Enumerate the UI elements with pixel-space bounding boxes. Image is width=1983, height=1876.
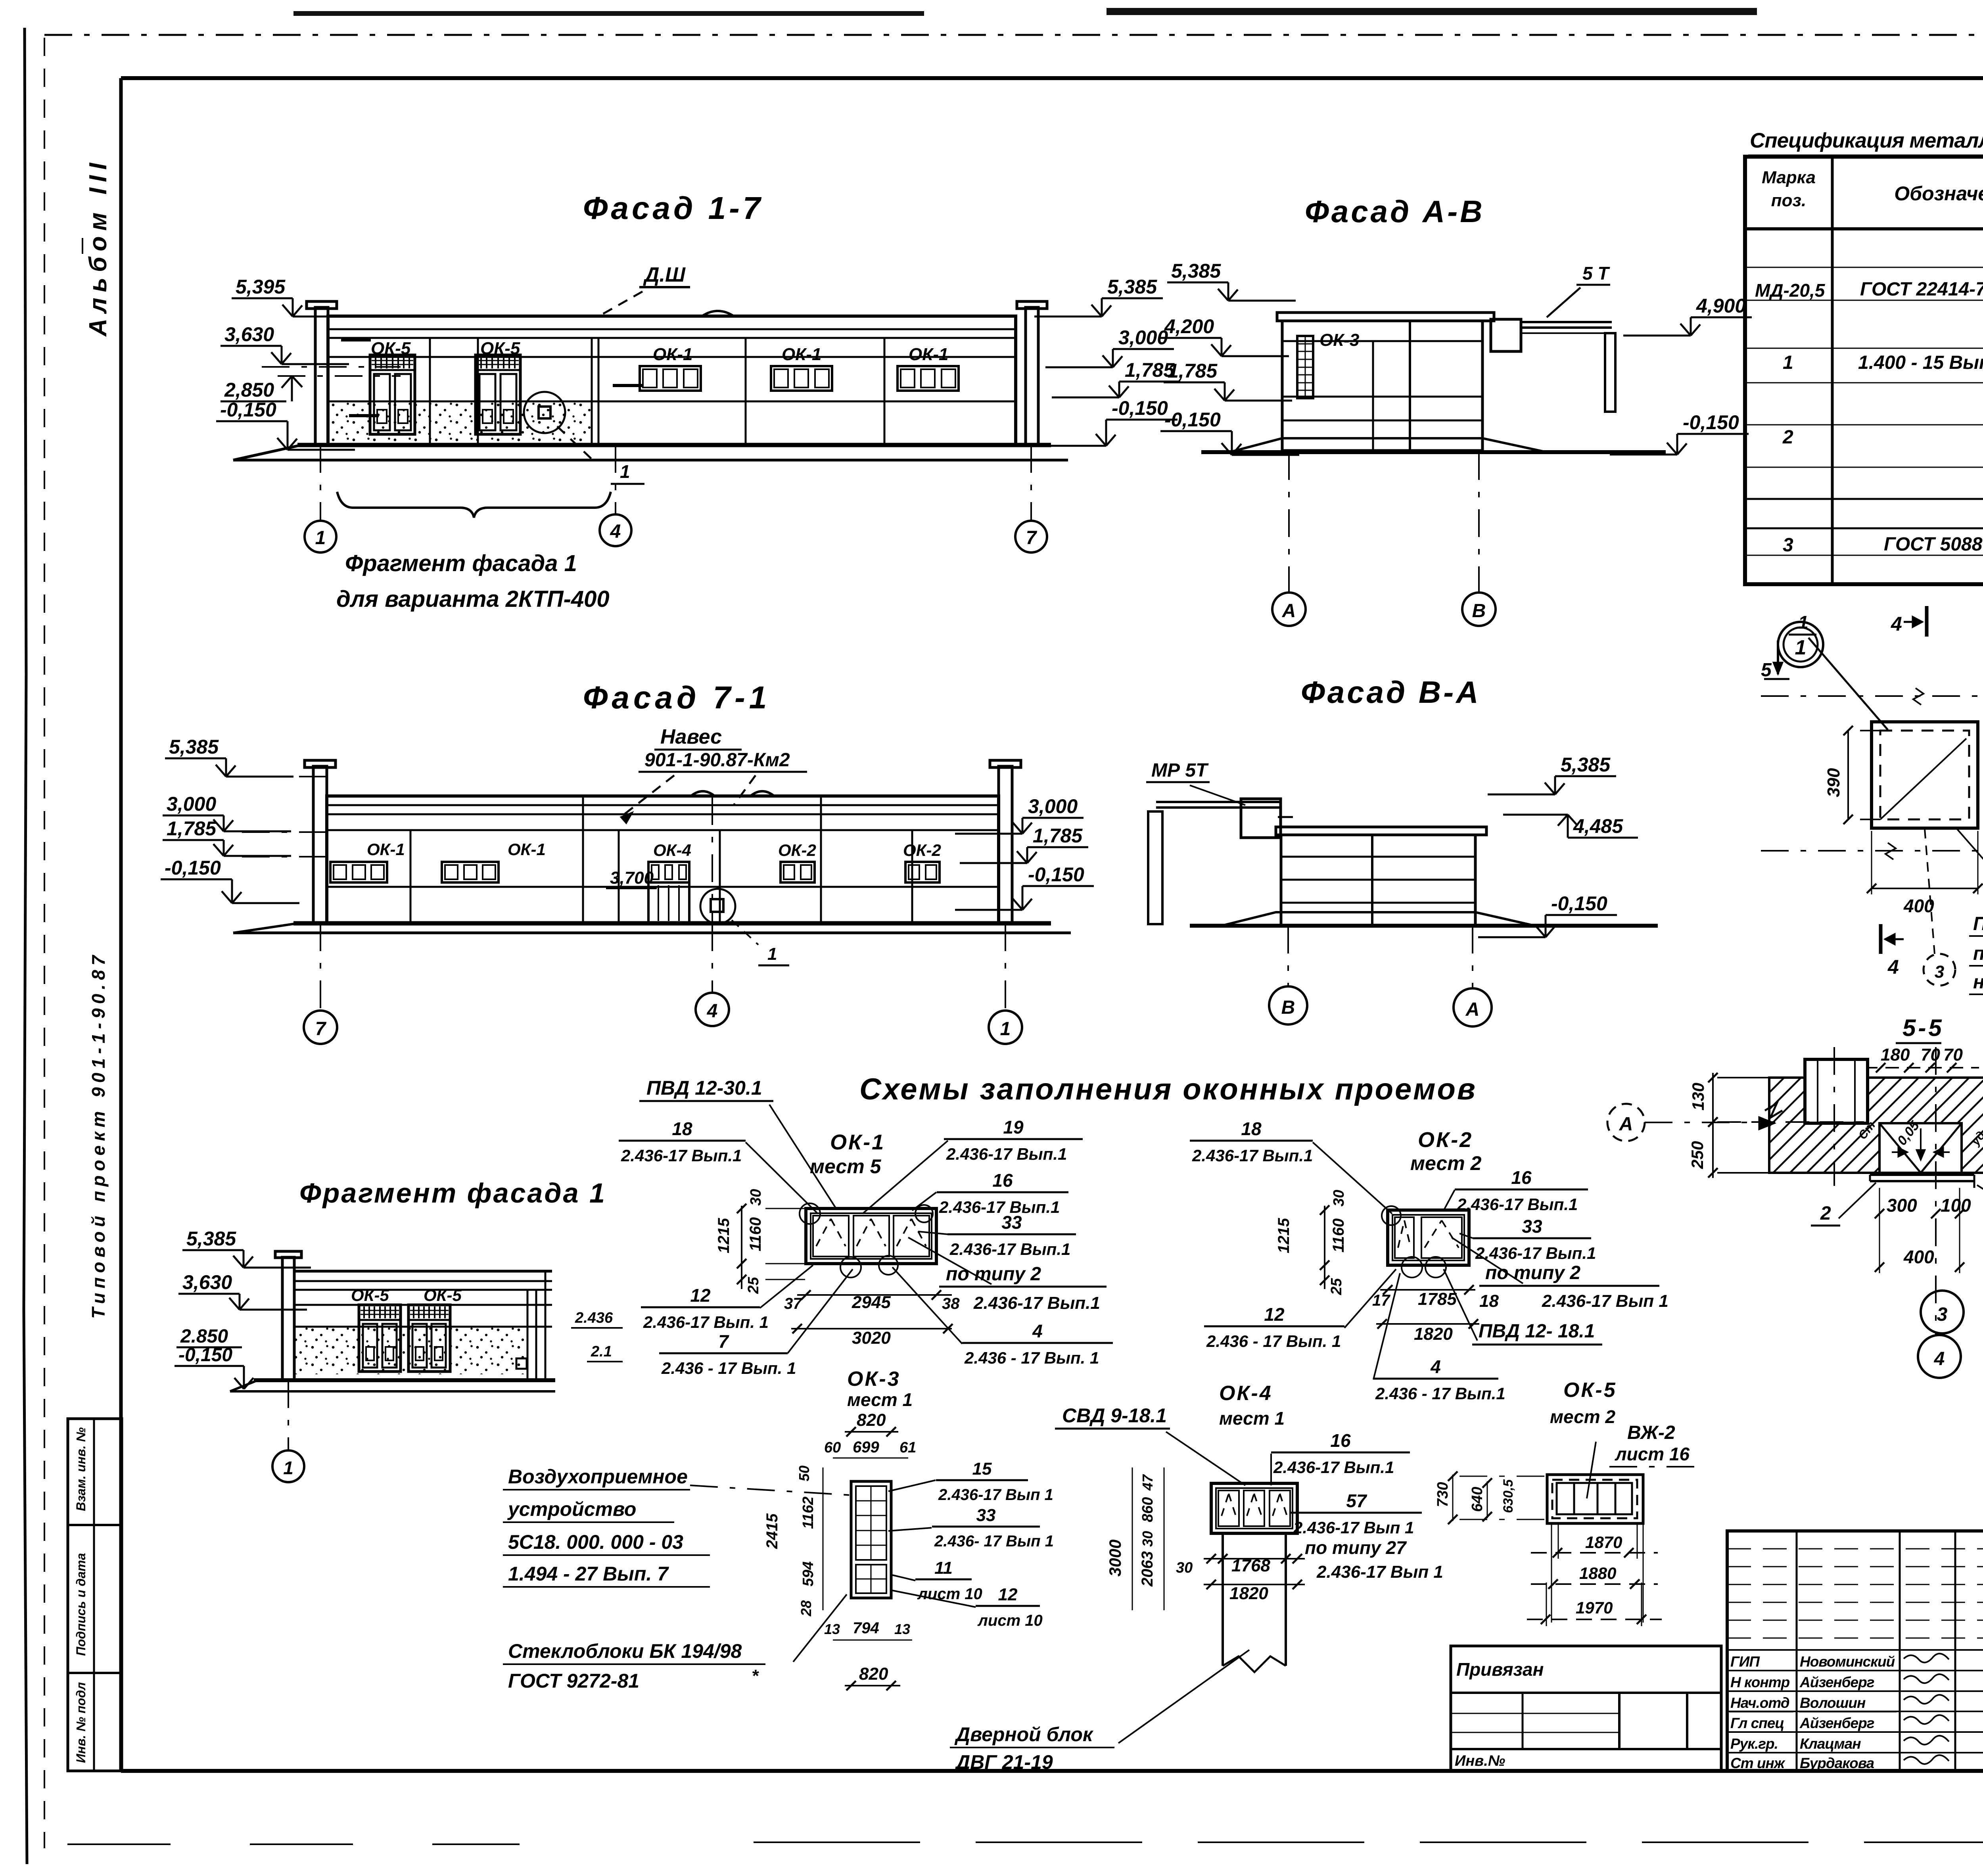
svg-text:Фасад 1-7: Фасад 1-7	[583, 190, 763, 226]
fragment facade speckle band	[295, 1327, 525, 1374]
svg-text:4: 4	[1032, 1321, 1043, 1341]
svg-text:13: 13	[894, 1621, 910, 1637]
svg-text:-0,150: -0,150	[1683, 411, 1739, 434]
svg-text:лист 10: лист 10	[917, 1585, 982, 1603]
niche plan centerlines	[1761, 695, 1983, 697]
svg-text:3: 3	[1935, 962, 1944, 982]
svg-text:ДВГ 21-19: ДВГ 21-19	[954, 1751, 1053, 1773]
axis bubble 4 (facade 7-1)	[696, 993, 729, 1026]
svg-text:ВЖ-2: ВЖ-2	[1627, 1422, 1675, 1443]
svg-text:57: 57	[1346, 1490, 1367, 1511]
svg-text:2.436 - 17 Вып. 1: 2.436 - 17 Вып. 1	[964, 1348, 1099, 1367]
svg-text:12: 12	[998, 1585, 1018, 1604]
svg-text:130: 130	[1689, 1083, 1707, 1111]
facade 7-1 panel joints	[410, 830, 412, 923]
svg-text:2945: 2945	[852, 1293, 891, 1312]
niche plan dim 390	[1847, 731, 1849, 819]
svg-text:7: 7	[315, 1019, 327, 1040]
svg-text:730: 730	[1435, 1482, 1451, 1507]
svg-text:13: 13	[824, 1621, 840, 1637]
svg-text:Схемы заполнения оконных пр: Схемы заполнения оконных проемов	[859, 1072, 1477, 1106]
main drawing frame	[121, 76, 1983, 80]
facade 7-1 building outline	[313, 766, 327, 923]
svg-text:820: 820	[859, 1664, 888, 1684]
svg-text:лист 16: лист 16	[1615, 1444, 1690, 1464]
svg-text:11: 11	[934, 1558, 953, 1578]
svg-text:1820: 1820	[1414, 1324, 1453, 1344]
svg-text:12: 12	[1264, 1304, 1285, 1325]
svg-text:2.436-17 Вып 1: 2.436-17 Вып 1	[1316, 1562, 1443, 1582]
svg-text:2.436-17 Вып.1: 2.436-17 Вып.1	[939, 1198, 1060, 1216]
svg-text:1: 1	[315, 528, 326, 549]
svg-text:Привязан: Привязан	[1456, 1659, 1544, 1680]
svg-text:1.400 - 15 Вып 1: 1.400 - 15 Вып 1	[1858, 352, 1983, 373]
scheme OK-2 vertical dims	[1324, 1206, 1325, 1289]
svg-text:Фасад В-А: Фасад В-А	[1301, 675, 1481, 710]
svg-text:2.1: 2.1	[591, 1343, 612, 1360]
svg-text:3000: 3000	[1106, 1540, 1124, 1577]
svg-text:2.436-17 Вып.1: 2.436-17 Вып.1	[621, 1146, 742, 1165]
svg-text:60: 60	[824, 1439, 841, 1456]
svg-text:ОК-5: ОК-5	[371, 339, 411, 358]
svg-text:Клацман: Клацман	[1800, 1736, 1861, 1752]
svg-text:1: 1	[1798, 612, 1808, 633]
svg-text:1: 1	[1795, 636, 1807, 659]
svg-text:*: *	[752, 1666, 759, 1686]
bottom dashed border	[67, 1843, 520, 1845]
section 5-5 bottom plate	[1870, 1174, 1974, 1176]
svg-text:70: 70	[1943, 1045, 1963, 1065]
svg-text:2415: 2415	[763, 1513, 781, 1549]
svg-text:33: 33	[1001, 1212, 1022, 1233]
svg-text:Новоминский: Новоминский	[1800, 1653, 1895, 1670]
svg-text:для варианта 2КТП-400: для варианта 2КТП-400	[336, 586, 610, 612]
svg-text:2.436- 17 Вып 1: 2.436- 17 Вып 1	[934, 1533, 1054, 1550]
svg-text:ГИП: ГИП	[1730, 1653, 1760, 1670]
svg-text:1820: 1820	[1229, 1584, 1268, 1603]
svg-text:Типовой проект 901-1-90.87: Типовой проект 901-1-90.87	[88, 951, 109, 1319]
svg-text:5,385: 5,385	[169, 736, 219, 758]
facade 1-7 windows OK-1	[640, 366, 701, 391]
facade 1-7 roof vent bump	[702, 311, 734, 316]
svg-text:2.436 - 17 Вып.1: 2.436 - 17 Вып.1	[1375, 1384, 1505, 1403]
facade A-B axes and bubbles	[1288, 452, 1290, 593]
svg-text:ОК-5: ОК-5	[1563, 1379, 1617, 1402]
svg-text:ГОСТ 22414-77: ГОСТ 22414-77	[1860, 279, 1983, 300]
svg-text:47: 47	[1139, 1474, 1156, 1491]
svg-text:Просмоленная: Просмоленная	[1973, 913, 1983, 934]
svg-text:-0,150: -0,150	[165, 857, 221, 879]
svg-text:15: 15	[972, 1459, 992, 1479]
svg-text:1: 1	[283, 1458, 293, 1478]
svg-text:1785: 1785	[1418, 1289, 1457, 1309]
svg-text:Навес: Навес	[660, 725, 722, 748]
svg-text:мест 2: мест 2	[1550, 1406, 1615, 1427]
svg-text:ОК-1: ОК-1	[830, 1130, 885, 1154]
svg-text:Обозначение: Обозначение	[1894, 182, 1983, 205]
svg-text:1160: 1160	[747, 1217, 764, 1251]
svg-text:А: А	[1282, 600, 1296, 621]
svg-text:ПВД 12- 18.1: ПВД 12- 18.1	[1479, 1321, 1595, 1342]
svg-text:5,385: 5,385	[1171, 260, 1221, 282]
svg-text:2.436-17 Вып.1: 2.436-17 Вып.1	[1475, 1244, 1596, 1262]
svg-text:МР 5Т: МР 5Т	[1151, 760, 1209, 781]
scheme OK-1 vertical dims	[741, 1206, 742, 1289]
svg-text:Альбом III: Альбом III	[84, 157, 112, 337]
niche plan section marker 4 top	[1925, 606, 1929, 637]
svg-text:пакля на цемент-: пакля на цемент-	[1973, 943, 1983, 964]
svg-text:2.436-17 Вып 1: 2.436-17 Вып 1	[1542, 1291, 1668, 1311]
facade 1-7 window OK-5 no.2	[476, 355, 520, 434]
svg-text:794: 794	[853, 1619, 879, 1637]
svg-text:ОК-4: ОК-4	[653, 841, 691, 859]
scheme OK-4 wall stem	[1222, 1533, 1224, 1666]
svg-text:Фрагмент фасада 1: Фрагмент фасада 1	[345, 551, 577, 576]
svg-text:В: В	[1281, 997, 1295, 1018]
svg-text:5,385: 5,385	[1107, 276, 1157, 298]
svg-text:1,785: 1,785	[1168, 360, 1218, 382]
svg-text:3,000: 3,000	[1028, 795, 1078, 817]
svg-text:ПВД 12-30.1: ПВД 12-30.1	[646, 1077, 762, 1099]
svg-text:5-5: 5-5	[1902, 1015, 1944, 1041]
svg-text:ОК-2: ОК-2	[903, 841, 941, 859]
svg-text:Инв. № подл: Инв. № подл	[74, 1682, 88, 1763]
svg-text:4: 4	[1430, 1356, 1441, 1377]
svg-text:Инв.№: Инв.№	[1455, 1753, 1505, 1769]
svg-text:1160: 1160	[1330, 1218, 1347, 1253]
svg-text:1: 1	[1000, 1019, 1011, 1040]
facade B-A left annex	[1148, 811, 1162, 924]
niche plan square	[1872, 722, 1978, 828]
svg-text:-0,150: -0,150	[1551, 892, 1607, 915]
scheme OK-1 horizontal dims	[797, 1294, 952, 1296]
svg-text:100: 100	[1941, 1195, 1971, 1216]
svg-text:70: 70	[1921, 1045, 1940, 1065]
svg-text:ном растворе: ном растворе	[1973, 972, 1983, 993]
svg-text:4: 4	[1934, 1348, 1945, 1370]
svg-text:ОК-4: ОК-4	[1219, 1382, 1273, 1405]
svg-text:250: 250	[1688, 1141, 1707, 1169]
facade 7-1 vent callout	[700, 889, 735, 924]
svg-text:820: 820	[857, 1410, 886, 1430]
svg-text:28: 28	[798, 1600, 814, 1617]
svg-text:30: 30	[1139, 1531, 1156, 1547]
facade 1-7 fragment brace	[337, 492, 611, 518]
svg-text:ОК-1: ОК-1	[508, 840, 546, 859]
svg-text:180: 180	[1881, 1045, 1910, 1065]
svg-text:2.436-17 Вып.1: 2.436-17 Вып.1	[1192, 1146, 1313, 1165]
axis bubble 7 (facade 7-1)	[304, 1011, 337, 1044]
svg-text:ОК-5: ОК-5	[351, 1286, 389, 1304]
svg-text:Воздухоприемное: Воздухоприемное	[508, 1466, 688, 1488]
svg-text:2063: 2063	[1139, 1551, 1156, 1587]
svg-text:594: 594	[800, 1561, 817, 1586]
svg-text:2.436-17 Вып.1: 2.436-17 Вып.1	[973, 1293, 1100, 1313]
svg-text:Взам. инв. №: Взам. инв. №	[74, 1427, 88, 1511]
scheme OK-2 window	[1388, 1210, 1469, 1265]
svg-text:25: 25	[1328, 1278, 1345, 1295]
svg-text:5,385: 5,385	[1561, 754, 1611, 776]
facade A-B window OK-3	[1297, 336, 1313, 398]
axis bubble B (facade B-A)	[1269, 986, 1307, 1024]
svg-text:1: 1	[620, 461, 630, 482]
scheme OK-3 window glass blocks	[851, 1481, 891, 1598]
svg-text:Бурдакова: Бурдакова	[1800, 1755, 1874, 1771]
svg-text:поз.: поз.	[1771, 191, 1806, 210]
axis bubble A	[1272, 593, 1306, 626]
svg-text:699: 699	[853, 1439, 879, 1456]
facade B-A building	[1276, 827, 1486, 835]
svg-text:18: 18	[1241, 1118, 1262, 1139]
svg-text:Марка: Марка	[1762, 168, 1816, 187]
svg-text:ОК-5: ОК-5	[424, 1286, 462, 1304]
facade 1-7 building outline	[315, 307, 328, 445]
svg-text:ОК-1: ОК-1	[909, 345, 948, 364]
svg-text:640: 640	[1469, 1487, 1486, 1512]
svg-text:ОК-3: ОК-3	[1319, 330, 1359, 350]
svg-text:33: 33	[976, 1506, 996, 1525]
svg-text:61: 61	[899, 1439, 916, 1456]
fragment facade ground	[254, 1378, 555, 1382]
facade 1-7 band lines	[328, 356, 1016, 358]
facade B-A ground	[1190, 924, 1658, 928]
svg-text:ГОСТ 9272-81: ГОСТ 9272-81	[508, 1670, 639, 1692]
svg-text:ОК-1: ОК-1	[367, 840, 405, 859]
svg-text:2.436-17 Вып 1: 2.436-17 Вып 1	[1293, 1518, 1414, 1537]
facade B-A axes and bubbles	[1287, 926, 1289, 986]
facade A-B canopy and bracket	[1491, 319, 1521, 351]
svg-text:1,785: 1,785	[167, 817, 217, 840]
axis bubble 7	[1015, 521, 1047, 552]
svg-text:300: 300	[1887, 1195, 1917, 1216]
svg-text:4: 4	[1891, 613, 1902, 635]
svg-text:3020: 3020	[852, 1328, 891, 1348]
svg-text:3,630: 3,630	[182, 1271, 232, 1293]
axis bubble B	[1462, 593, 1496, 626]
svg-text:Рук.гр.: Рук.гр.	[1730, 1736, 1778, 1752]
facade 7-1 windows OK-1	[330, 862, 387, 882]
title block signature table	[1727, 1531, 1983, 1771]
top edge scan smudge right	[1107, 8, 1757, 15]
svg-text:Фасад А-В: Фасад А-В	[1305, 194, 1485, 229]
svg-text:5: 5	[1761, 660, 1772, 681]
svg-text:ОК-5: ОК-5	[480, 339, 520, 358]
svg-text:СВД 9-18.1: СВД 9-18.1	[1062, 1404, 1167, 1427]
svg-text:18: 18	[672, 1118, 692, 1139]
svg-text:1: 1	[1783, 352, 1793, 373]
svg-text:50: 50	[796, 1466, 812, 1481]
facade 7-1 axis 4 line through building	[712, 797, 713, 923]
svg-text:лист 10: лист 10	[977, 1612, 1043, 1629]
niche plan section marker 4 bottom	[1879, 924, 1883, 954]
facade 7-1 ground	[293, 921, 1051, 926]
svg-text:Нач.отд: Нач.отд	[1730, 1695, 1789, 1711]
svg-text:860: 860	[1139, 1497, 1156, 1522]
svg-text:Спецификация металлических шка: Спецификация металлических шкафов,стальн…	[1750, 129, 1983, 152]
facade 7-1 window OK-4 and door	[648, 862, 689, 882]
svg-text:ОК-3: ОК-3	[847, 1368, 901, 1391]
left dashed margin line	[44, 38, 45, 1848]
svg-text:16: 16	[1330, 1430, 1351, 1451]
svg-text:ОК-1: ОК-1	[782, 345, 821, 364]
svg-text:Дверной блок: Дверной блок	[954, 1723, 1094, 1746]
svg-text:901-1-90.87-Км2: 901-1-90.87-Км2	[644, 750, 790, 771]
svg-text:18: 18	[1479, 1291, 1499, 1311]
axis bubble 1 (facade 7-1)	[989, 1011, 1022, 1044]
svg-text:мест 5: мест 5	[810, 1155, 882, 1178]
svg-text:2.850: 2.850	[180, 1326, 228, 1347]
svg-text:-0,150: -0,150	[1112, 397, 1168, 419]
section 5-5 circles 3 and 4	[1921, 1291, 1964, 1333]
svg-text:5 Т: 5 Т	[1582, 263, 1610, 284]
facade 7-1 roof bumps	[691, 791, 715, 796]
svg-text:5,385: 5,385	[186, 1228, 236, 1250]
svg-text:А: А	[1465, 999, 1480, 1020]
section 5-5 hatched wall band	[1769, 1078, 1983, 1173]
svg-text:2.436: 2.436	[575, 1310, 613, 1326]
svg-text:3: 3	[1783, 535, 1793, 556]
facade 7-1 axes and bubbles	[320, 923, 321, 1011]
niche plan circle 3	[1924, 954, 1955, 986]
fragment facade windows OK-5	[359, 1305, 401, 1372]
svg-text:мест 1: мест 1	[1219, 1408, 1285, 1429]
svg-text:16: 16	[992, 1170, 1013, 1191]
section 5-5 dims 300 100 400	[1879, 1188, 1880, 1273]
svg-text:17: 17	[1372, 1292, 1390, 1309]
facade 1-7 speckle band	[329, 401, 591, 444]
top dash-dot border	[44, 34, 1983, 36]
svg-text:1970: 1970	[1576, 1598, 1613, 1617]
scheme OK-5 dims	[1551, 1523, 1552, 1623]
svg-text:37: 37	[784, 1295, 802, 1312]
svg-text:Стеклоблоки БК 194/98: Стеклоблоки БК 194/98	[508, 1640, 742, 1662]
section 5-5 circle A callout	[1607, 1104, 1645, 1141]
svg-text:390: 390	[1824, 768, 1843, 797]
svg-text:по типу 2: по типу 2	[1485, 1262, 1580, 1283]
facade 1-7 panel joints	[430, 338, 430, 401]
svg-text:-0,150: -0,150	[1028, 863, 1084, 886]
facade 1-7 window OK-5 no.1	[370, 355, 415, 434]
svg-text:Волошин: Волошин	[1800, 1695, 1866, 1711]
specification table frame	[1745, 157, 1983, 584]
svg-text:1: 1	[767, 944, 777, 964]
title block privyazan box	[1451, 1646, 1721, 1771]
facade 1-7 small arrows	[341, 338, 371, 341]
svg-text:3,700: 3,700	[610, 868, 654, 888]
scheme OK-5 window	[1547, 1475, 1643, 1523]
svg-text:Айзенберг: Айзенберг	[1799, 1715, 1874, 1731]
svg-text:2.436-17 Вып.1: 2.436-17 Вып.1	[946, 1145, 1067, 1163]
svg-text:16: 16	[1511, 1167, 1532, 1188]
svg-text:Гл спец: Гл спец	[1730, 1715, 1784, 1731]
section 5-5 left dims 130 250	[1717, 1077, 1773, 1078]
axis bubble A (facade B-A)	[1454, 988, 1492, 1026]
facade 1-7 ground line	[297, 443, 1051, 447]
svg-text:мест 2: мест 2	[1410, 1152, 1482, 1174]
section 5-5 vent stub	[1805, 1059, 1868, 1123]
svg-text:2.436-17 Вып 1: 2.436-17 Вып 1	[938, 1486, 1053, 1504]
svg-text:2: 2	[1782, 427, 1793, 448]
svg-text:2.436-17 Вып.1: 2.436-17 Вып.1	[1457, 1195, 1578, 1214]
svg-text:по типу 27: по типу 27	[1305, 1537, 1407, 1558]
svg-text:А: А	[1619, 1114, 1633, 1135]
svg-text:Подпись и дата: Подпись и дата	[74, 1553, 88, 1656]
svg-text:1215: 1215	[715, 1218, 733, 1253]
svg-text:12: 12	[690, 1285, 711, 1306]
outer rough left border	[25, 28, 26, 674]
fragment facade axis bubble 1	[288, 1380, 289, 1450]
svg-text:2.436 - 17 Вып. 1: 2.436 - 17 Вып. 1	[1206, 1332, 1341, 1350]
svg-text:3,000: 3,000	[167, 793, 216, 815]
left stamp column	[68, 1419, 122, 1771]
svg-text:ГОСТ 5088-78: ГОСТ 5088-78	[1884, 534, 1983, 555]
svg-text:1870: 1870	[1585, 1533, 1622, 1552]
svg-text:2: 2	[1820, 1203, 1831, 1224]
scheme OK-4 window	[1211, 1483, 1297, 1533]
svg-text:38: 38	[942, 1295, 960, 1312]
svg-text:2.436 - 17 Вып. 1: 2.436 - 17 Вып. 1	[661, 1359, 796, 1377]
top edge scan smudge left	[293, 11, 924, 16]
svg-text:5,395: 5,395	[236, 276, 286, 298]
svg-text:30: 30	[1176, 1559, 1193, 1576]
axis bubble 1	[305, 521, 336, 552]
facade A-B building	[1277, 313, 1494, 321]
svg-text:400: 400	[1903, 1247, 1934, 1267]
svg-text:-0,150: -0,150	[220, 399, 276, 421]
svg-text:7: 7	[1026, 528, 1038, 549]
svg-text:4,900: 4,900	[1696, 295, 1746, 317]
svg-text:Айзенберг: Айзенберг	[1799, 1674, 1874, 1690]
fragment facade vent square	[516, 1358, 527, 1369]
section 5-5 break marks	[1765, 1103, 1782, 1118]
svg-text:33: 33	[1522, 1216, 1542, 1237]
svg-text:1,785: 1,785	[1033, 825, 1083, 847]
svg-text:МД-20,5: МД-20,5	[1755, 280, 1826, 301]
section 5-5 niche cavity with V	[1879, 1123, 1962, 1173]
svg-text:Д.Ш: Д.Ш	[643, 263, 686, 286]
facade 7-1 windows OK-2	[781, 862, 815, 882]
svg-text:В: В	[1472, 600, 1486, 621]
detail callout double circle 1	[1778, 622, 1823, 667]
svg-text:1880: 1880	[1579, 1564, 1616, 1583]
niche plan dim 400	[1872, 888, 1978, 889]
svg-text:-0,150: -0,150	[178, 1345, 232, 1366]
svg-text:4,200: 4,200	[1164, 315, 1214, 338]
svg-text:2.436-17 Вып. 1: 2.436-17 Вып. 1	[643, 1313, 769, 1331]
svg-text:1.494 - 27 Вып. 7: 1.494 - 27 Вып. 7	[508, 1563, 669, 1585]
svg-text:3,630: 3,630	[224, 323, 274, 345]
svg-text:Фасад 7-1: Фасад 7-1	[583, 680, 771, 715]
svg-text:Н контр: Н контр	[1730, 1674, 1790, 1690]
svg-text:4: 4	[707, 1001, 718, 1022]
svg-text:2.436-17 Вып.1: 2.436-17 Вып.1	[1273, 1458, 1394, 1477]
svg-text:мест 1: мест 1	[847, 1389, 913, 1410]
svg-text:1162: 1162	[800, 1496, 817, 1529]
svg-text:2,850: 2,850	[224, 379, 274, 401]
facade A-B ground	[1201, 450, 1666, 454]
svg-text:-0,150: -0,150	[1164, 409, 1221, 431]
svg-text:7: 7	[718, 1331, 729, 1352]
svg-text:630,5: 630,5	[1501, 1479, 1516, 1513]
svg-text:Фрагмент фасада 1: Фрагмент фасада 1	[299, 1178, 606, 1208]
section 5-5 centerline through circles	[1935, 1047, 1937, 1335]
fragment facade building	[282, 1257, 294, 1380]
svg-text:5С18. 000. 000 - 03: 5С18. 000. 000 - 03	[508, 1531, 683, 1553]
svg-text:2.436-17 Вып.1: 2.436-17 Вып.1	[949, 1240, 1070, 1258]
niche plan section marker 5	[1777, 641, 1779, 674]
svg-text:30: 30	[1331, 1190, 1347, 1207]
svg-text:ОК-2: ОК-2	[778, 841, 816, 859]
